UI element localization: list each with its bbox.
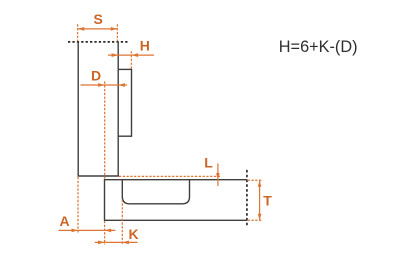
D extension dashed (door face line, upper) (104, 81, 106, 179)
cabinet side panel right edge (117, 42, 119, 176)
svg-text:H: H (140, 37, 150, 53)
door left edge (104, 179, 106, 221)
L dimension line (217, 164, 219, 187)
T dimension line (259, 180, 261, 220)
S arrow right (111, 27, 118, 31)
D arrow (tip at door face, pointing right) (98, 83, 105, 87)
K arrow (tip at door face, pointing right) (98, 241, 105, 245)
door bottom edge (105, 219, 247, 221)
T top dashed extension (248, 179, 263, 181)
door face dashed extension (lower) (104, 221, 106, 245)
hinge cup outline (122, 180, 189, 204)
svg-text:S: S (94, 11, 103, 27)
S extension dashed left (77, 24, 79, 41)
panel bottom plane dashed extension (119, 175, 221, 177)
K dimension line (95, 241, 138, 243)
cabinet side panel bottom edge (78, 175, 119, 177)
H extension dashed (130, 51, 132, 69)
svg-text:K: K (129, 226, 139, 242)
cabinet top dotted line (68, 41, 129, 43)
cup edge dashed extension (121, 200, 123, 245)
S arrow left (78, 27, 85, 31)
D arrow (tip at panel face, pointing left) (118, 83, 125, 87)
cabinet side panel left edge (77, 42, 79, 176)
door break dotted line (246, 170, 248, 227)
T bottom dashed extension (248, 219, 263, 221)
svg-text:D: D (91, 68, 101, 84)
S extension dashed right (116, 24, 118, 41)
hinge arm block top edge (118, 68, 131, 70)
door top edge (105, 179, 247, 181)
svg-text:T: T (263, 192, 272, 208)
hinge arm block right edge (131, 69, 133, 137)
panel left edge dashed extension (77, 177, 79, 233)
A arrow (tip at panel left, pointing right) (72, 229, 79, 233)
A dimension line (59, 229, 116, 231)
hinge arm block bottom edge (118, 135, 131, 137)
L arrow (tip at door top, pointing down) (216, 173, 220, 180)
T arrow bottom (pointing down) (258, 214, 262, 221)
S dimension line (78, 28, 118, 30)
H arrow (tip at panel face, pointing right) (112, 53, 119, 57)
svg-text:A: A (60, 213, 70, 229)
H dimension line (108, 54, 154, 56)
T arrow top (pointing up) (258, 180, 262, 187)
svg-text:H=6+K-(D): H=6+K-(D) (279, 38, 358, 56)
D dimension line (81, 84, 128, 86)
A arrow (tip at door face, pointing left) (105, 229, 112, 233)
svg-text:L: L (204, 154, 213, 170)
K arrow (tip at cup edge, pointing left) (122, 241, 129, 245)
H arrow (tip at arm face, pointing left) (132, 53, 139, 57)
